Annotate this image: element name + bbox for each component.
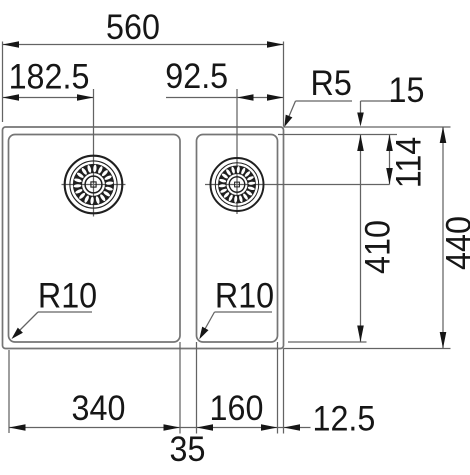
svg-text:560: 560 [106, 8, 160, 48]
svg-text:114: 114 [389, 137, 429, 189]
svg-text:35: 35 [170, 430, 206, 470]
svg-text:92.5: 92.5 [165, 57, 228, 97]
svg-text:R10: R10 [215, 276, 274, 316]
svg-text:15: 15 [389, 71, 425, 111]
svg-text:410: 410 [358, 220, 398, 274]
svg-text:160: 160 [210, 389, 264, 429]
svg-text:12.5: 12.5 [313, 399, 376, 439]
svg-text:R5: R5 [311, 64, 352, 104]
svg-text:340: 340 [72, 389, 126, 429]
svg-text:R10: R10 [38, 276, 97, 316]
svg-text:182.5: 182.5 [9, 57, 90, 97]
svg-text:440: 440 [439, 216, 470, 270]
